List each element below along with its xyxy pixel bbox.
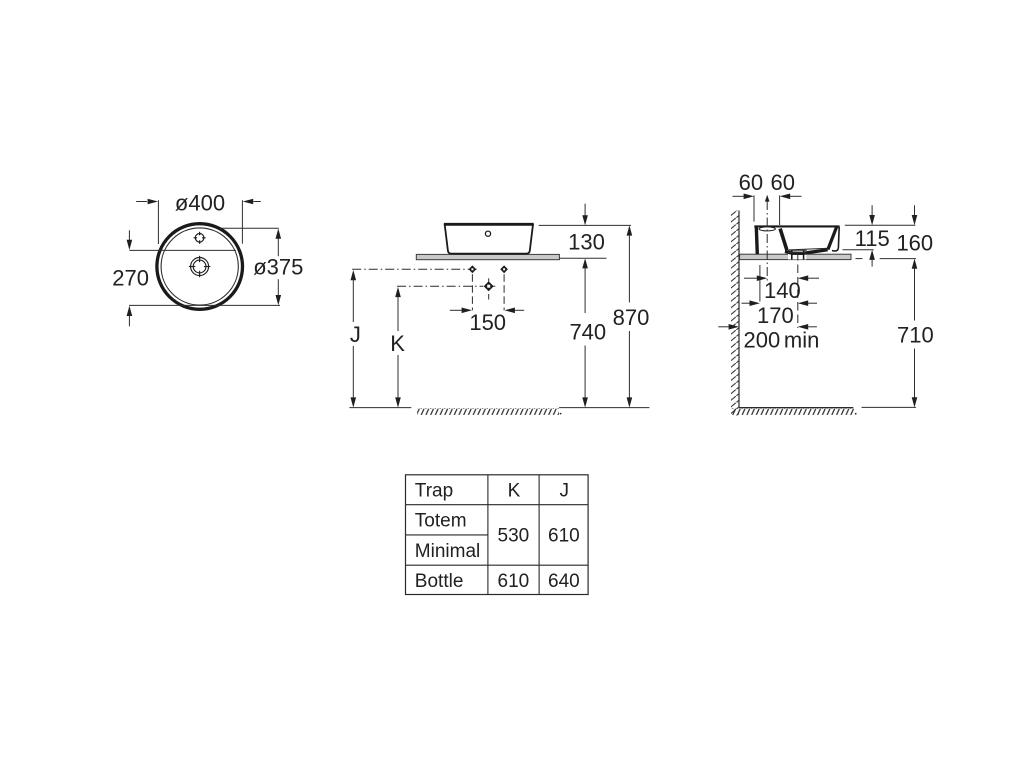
- J dimension line with arrows: [351, 270, 357, 280]
- dashed extension below left diamond: [471, 274, 473, 310]
- K centerline (dash-dot, lower tap level): [397, 285, 483, 287]
- tap hole ellipse on deck: [759, 227, 775, 231]
- 270 dimension bottom arrow: [128, 316, 130, 327]
- ø400 left arrow: [136, 201, 147, 203]
- floor line left segment (front): [349, 407, 411, 409]
- svg-text:60: 60: [739, 170, 763, 195]
- 140 left arrow: [744, 277, 757, 279]
- svg-text:160: 160: [896, 231, 933, 256]
- svg-text:K: K: [390, 331, 405, 356]
- tap hole (plan): [194, 232, 206, 244]
- svg-text:ø400: ø400: [175, 190, 225, 215]
- K centerline stub right of diamond: [494, 285, 496, 287]
- 60/60: first extension line: [753, 195, 755, 221]
- table header row divider: [406, 504, 589, 506]
- floor line (side, under basin): [739, 407, 853, 409]
- svg-text:J: J: [350, 322, 361, 347]
- wall hatching band: [731, 211, 739, 416]
- 710 dimension line upper segment: [914, 268, 916, 320]
- drain stub right wall: [803, 250, 805, 259]
- overflow hole (front): [485, 231, 490, 236]
- 60/60: second extension line: [779, 195, 781, 225]
- 115 down arrow: [871, 205, 873, 216]
- 170 right arrow: [808, 302, 817, 304]
- basin inner rim circle (plan): [161, 228, 238, 305]
- basin profile: back edge: [756, 227, 757, 255]
- drain stub left wall: [791, 250, 793, 259]
- table column divider 2: [538, 475, 540, 595]
- 60 right arrow: [790, 195, 802, 197]
- left tap position marker diamond: [469, 265, 477, 273]
- svg-text:60: 60: [770, 170, 794, 195]
- slab-bottom extension line (side right): [880, 258, 916, 260]
- hatch end dot (side): [855, 413, 857, 415]
- ø375 dimension line lower segment + arrow: [277, 279, 279, 296]
- basin profile: right rim inner slope: [828, 227, 837, 250]
- basin profile: bowl interior bottom thin line: [789, 248, 829, 250]
- svg-text:740: 740: [569, 320, 606, 345]
- 150 dimension left arrow: [450, 309, 462, 311]
- svg-text:270: 270: [112, 265, 149, 290]
- K dimension line with arrows: [395, 287, 401, 297]
- centre tap position marker diamond (large): [488, 278, 490, 281]
- table column divider 1: [487, 475, 489, 595]
- svg-text:870: 870: [613, 305, 650, 330]
- svg-text:150: 150: [469, 310, 506, 335]
- wall face line: [738, 211, 740, 408]
- ø400 right arrow: [253, 201, 260, 203]
- top-right tangent reference line (ø375): [221, 227, 279, 229]
- svg-text:710: 710: [897, 323, 934, 348]
- svg-text:200 min: 200 min: [744, 328, 820, 353]
- 60 left arrow: [733, 195, 744, 197]
- svg-text:610: 610: [548, 526, 580, 547]
- svg-text:Minimal: Minimal: [415, 541, 480, 562]
- 140 right arrow: [808, 277, 819, 279]
- svg-text:140: 140: [764, 278, 801, 303]
- countertop slab (front): [416, 254, 559, 259]
- bottom tangent reference line: [129, 304, 280, 306]
- Minimal/Bottle row divider: [406, 564, 589, 566]
- svg-text:115: 115: [855, 226, 890, 251]
- svg-text:Bottle: Bottle: [415, 571, 464, 592]
- floor hatching (front): [417, 408, 559, 415]
- svg-text:130: 130: [568, 229, 605, 254]
- 740 dimension line with arrows: [582, 258, 588, 268]
- svg-text:170: 170: [757, 303, 794, 328]
- 200 min right arrow: [808, 326, 817, 328]
- 170 left arrow: [742, 302, 751, 304]
- 130 dimension top arrow (points down to basin top): [584, 204, 586, 216]
- 170 solid extension line below slab: [759, 265, 761, 302]
- svg-text:640: 640: [548, 571, 580, 592]
- basin profile: bowl floor (thick): [785, 250, 828, 254]
- drain boss white cut-out through slab: [788, 250, 806, 260]
- 115 bottom extension line (bowl floor level): [843, 249, 874, 251]
- floor hatching (side): [731, 408, 854, 415]
- 200 min left arrow (outside wall): [718, 326, 728, 328]
- 160 bottom up-arrow: [912, 259, 918, 269]
- countertop slab (side): [740, 254, 851, 259]
- svg-text:610: 610: [498, 571, 530, 592]
- basin profile: right rim outer face: [832, 227, 839, 251]
- 870 dimension line with arrows: [627, 225, 633, 235]
- basin-top extension line (front right): [539, 224, 631, 226]
- basin outer rim circle (plan): [157, 224, 243, 310]
- svg-text:530: 530: [498, 526, 530, 547]
- drain with crosshair (plan): [189, 256, 210, 277]
- floor extension line (front right): [559, 407, 649, 409]
- drain centreline (dashed, side): [797, 252, 799, 328]
- drain flange lines: [788, 249, 807, 251]
- basin profile: tap deck front face: [780, 229, 787, 251]
- ø375 dimension line upper segment + arrow: [277, 238, 279, 256]
- slab-bottom extension line (front right): [559, 257, 606, 259]
- right tap position marker diamond: [500, 265, 508, 273]
- svg-text:Trap: Trap: [415, 481, 453, 502]
- 160 down arrow: [914, 205, 916, 216]
- tap centreline (dash-dot, side): [766, 201, 768, 283]
- svg-text:K: K: [508, 481, 521, 502]
- dashed extension below right diamond: [503, 274, 505, 310]
- ø400 dimension: left extension line: [157, 200, 159, 244]
- svg-text:J: J: [560, 481, 570, 502]
- hatch end dot (front): [560, 413, 562, 415]
- basin-top extension line (side right): [845, 224, 916, 226]
- svg-text:ø375: ø375: [253, 255, 303, 280]
- tap centreline up-arrow: [765, 195, 770, 202]
- chord reference line (270 top reference): [129, 249, 236, 251]
- ø400 dimension: right extension line: [241, 200, 243, 244]
- svg-text:Totem: Totem: [415, 510, 467, 531]
- 270 dimension top arrow: [128, 230, 130, 241]
- slab-bottom extension dash: [856, 258, 863, 260]
- J centerline (dash-dot, tap hole level): [352, 268, 478, 270]
- floor extension line (side right): [862, 406, 917, 408]
- basin top rim (front, thick): [444, 223, 534, 226]
- 115 bottom up-arrow: [869, 250, 875, 260]
- basin profile: top rim line: [754, 225, 839, 227]
- table outer border: [406, 475, 589, 595]
- Totem/Minimal divider (first column only): [406, 534, 488, 536]
- 710 dimension line lower segment + arrow: [914, 349, 916, 399]
- basin body outline (front): [445, 224, 533, 254]
- 150 dimension right arrow: [514, 309, 524, 311]
